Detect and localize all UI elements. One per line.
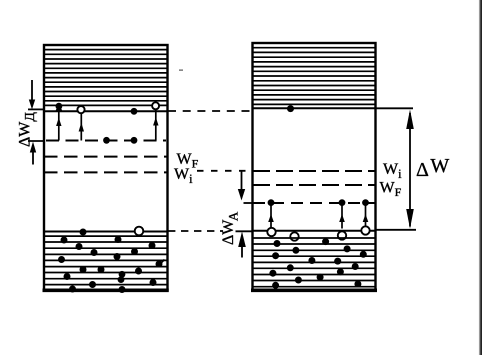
W_i continuation dashes to right box <box>197 170 253 172</box>
acceptor transition arrow c <box>363 206 369 229</box>
delta W dimension arrow <box>406 110 414 229</box>
conduction level extension to delta W arrow <box>376 107 414 109</box>
electron dots in left valence band <box>58 229 163 294</box>
electron dots in right valence band <box>269 238 366 289</box>
delta W_D dimension down arrow <box>29 80 35 109</box>
dashed connector conduction level between boxes <box>168 110 251 112</box>
level tick left of box (conduction bottom) <box>28 108 44 110</box>
acceptor transition arrow b <box>339 206 345 229</box>
hole circles on right valence top <box>267 226 369 240</box>
W_F dashed line (right) <box>253 184 376 186</box>
conduction band bottom edge (left) <box>44 110 168 112</box>
electron dot on right conduction edge <box>287 105 294 112</box>
donor level dashed line <box>28 140 166 143</box>
right box outline (p-type diagram) <box>251 43 377 291</box>
delta W_D dimension up arrow <box>30 142 36 165</box>
electron dot on acceptor level b <box>339 199 346 206</box>
valence band hatch (left) <box>44 236 168 285</box>
acceptor transition arrow a <box>268 206 274 229</box>
conduction band bottom edge (right) <box>253 107 376 109</box>
page edge vertical line at right <box>479 0 482 355</box>
valence band top edge (left) <box>44 231 168 233</box>
svg-text:ΔW: ΔW <box>416 155 449 181</box>
transition arrow 1 with electron dot <box>56 103 63 141</box>
electron dot on donor level a <box>103 137 110 144</box>
valence top left extension (right box) <box>236 230 253 232</box>
acceptor level dashed line <box>244 202 376 204</box>
electron dot on acceptor level c <box>362 199 369 206</box>
valence band hatch (right) <box>253 238 376 287</box>
conduction band hatch (left) <box>44 50 168 106</box>
dashed connector valence level between boxes <box>168 230 223 232</box>
ionized donor circle with arrow 4 <box>152 102 159 140</box>
hole circle on left valence top <box>135 227 144 236</box>
W_F dashed line (left) <box>44 156 168 158</box>
W_i dashed line (right) <box>253 170 376 172</box>
ionized donor circle with arrow 2 <box>77 106 84 141</box>
valence level extension to delta W arrow <box>376 229 417 231</box>
electron dot on acceptor level a <box>268 199 275 206</box>
electron dot on band edge <box>131 108 138 115</box>
delta W_A dimension up arrow <box>238 232 246 258</box>
valence band top edge (right) <box>253 230 376 232</box>
W_i dashed line (left) <box>44 171 168 173</box>
left box outline (n-type diagram) <box>43 45 169 291</box>
delta W_A dimension down arrow <box>238 172 245 201</box>
small speck between boxes <box>179 69 183 71</box>
small tick mark near right edge of left valence band <box>161 260 165 264</box>
conduction band hatch (right) <box>253 48 376 105</box>
electron dot on donor level b <box>131 137 138 144</box>
